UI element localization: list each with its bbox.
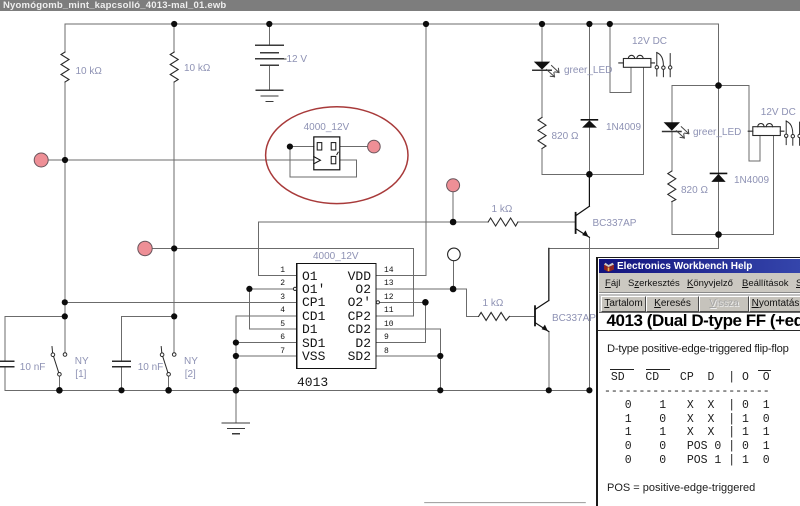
capacitor C2 10nF <box>113 361 131 367</box>
U2 pin glyph top-right <box>331 143 336 150</box>
wire 4000 feedback loop <box>290 147 357 177</box>
wire 4000 subcircuit input <box>290 146 314 148</box>
wire B connector2 to CP2 <box>152 249 414 316</box>
capacitor C1 10nF <box>0 361 14 367</box>
wire node B to Q2 collector <box>549 235 719 301</box>
help heading <box>598 330 800 331</box>
transistor Q2 BC337AP <box>535 248 549 331</box>
stray screen line bottom <box>425 502 586 504</box>
wire cap2 leads <box>121 316 123 390</box>
help button bar <box>599 294 800 312</box>
wire 4000 output to connector <box>340 146 368 148</box>
value label R3 <box>552 131 579 142</box>
switch S2 NY[2] pushbutton <box>160 347 176 377</box>
label switch S1 <box>75 356 89 367</box>
wire cap1 leads <box>4 316 6 390</box>
ground below IC <box>222 423 249 434</box>
switch S1 NY[1] pushbutton <box>51 347 67 377</box>
value label R6 <box>483 298 504 309</box>
wire switch2 leads <box>169 316 175 390</box>
wire switch1 leads <box>59 316 65 390</box>
relay K2 contacts <box>785 121 800 145</box>
pin2 open circle <box>293 287 296 290</box>
IC U1 4013 box <box>297 264 376 369</box>
value label R1 <box>76 66 102 77</box>
node connector red 2 <box>138 241 152 255</box>
label relay K1 <box>632 36 667 47</box>
wire A O1 to Q1 base <box>259 221 576 223</box>
label relay K2 <box>761 107 796 118</box>
help footer line <box>607 482 755 494</box>
wire pin2 to pin5 link <box>249 289 296 329</box>
resistor R5 1k <box>488 218 518 226</box>
wire pin8 stub <box>376 355 440 357</box>
wire connector1 to clock input <box>48 159 314 161</box>
value label battery <box>287 54 308 65</box>
label LED D4 <box>693 127 741 138</box>
wire pin7 VSS stub <box>236 355 297 357</box>
help menu bar <box>599 273 800 293</box>
node connector open white <box>448 248 461 261</box>
U2 clock triangle <box>314 157 321 164</box>
node connector red 4 <box>368 140 381 153</box>
wire connector3 stub <box>452 192 454 223</box>
ground below battery <box>256 90 283 101</box>
wire CP1 long row <box>65 301 297 303</box>
wire pin4 CD1 to ground <box>236 316 297 391</box>
help title bar <box>599 259 800 273</box>
wire VDD riser pin14 <box>376 24 426 276</box>
value label R2 <box>184 63 210 74</box>
truth table <box>610 369 634 370</box>
transistor Q1 BC337AP <box>576 174 590 237</box>
diode D6 1N4009 <box>711 173 727 182</box>
wire pin12 to pin9 link <box>376 302 425 342</box>
wire pin6 SD1 stub <box>236 342 297 344</box>
subcircuit U2 4000_12V box <box>314 137 340 170</box>
resistor R3 820 <box>538 117 546 148</box>
EWB document title bar <box>0 0 800 11</box>
Electronics Workbench Help window <box>596 257 800 506</box>
wire pin1 riser <box>259 222 297 276</box>
pin numbers right <box>384 267 394 275</box>
wire LED2 top feed <box>672 86 719 235</box>
wire ground bottom rail <box>5 389 590 391</box>
value label C1 <box>20 362 46 373</box>
wire node rail A <box>542 67 644 174</box>
wire relay2 coil feed <box>719 86 760 161</box>
relay K1 coil <box>619 55 655 67</box>
wire relay1 coil feed <box>610 24 631 93</box>
wire diode D2 vertical <box>718 86 720 235</box>
node connector red 1 <box>34 153 48 167</box>
wire diode D1 branch <box>588 24 590 174</box>
pin numbers left <box>270 267 285 275</box>
resistor R4 820 <box>668 171 676 202</box>
diode D5 1N4009 <box>581 120 597 128</box>
label diode D6 <box>734 175 769 186</box>
label subcircuit U2 <box>304 122 350 133</box>
wire cap1 top link <box>5 315 65 317</box>
label IC U1 model <box>313 251 359 262</box>
wire Q1 emitter down <box>588 237 590 390</box>
wire ground stub G2 <box>235 390 237 423</box>
value label R5 <box>492 204 513 215</box>
battery B1 12V <box>256 45 286 65</box>
label Q1 <box>593 218 637 229</box>
IC U1 pin names right <box>329 270 371 283</box>
node connector red 3 <box>447 179 460 192</box>
wire pin10 to ground rail <box>376 329 440 390</box>
wire R2 branch vertical <box>173 24 175 353</box>
wire top right corner down <box>718 24 720 86</box>
wire LED1 branch <box>541 24 543 174</box>
label switch S2 <box>184 356 198 367</box>
resistor R6 1k <box>479 312 510 320</box>
relay K2 coil <box>748 123 784 135</box>
label Q2 <box>552 313 596 324</box>
wire battery top lead <box>268 24 270 45</box>
U2 pin glyph top-left <box>317 143 322 150</box>
wire node rail B <box>672 136 774 235</box>
wire battery to ground lead <box>268 65 270 90</box>
wire top +12V rail <box>65 23 719 25</box>
wire cap2 top link <box>122 315 175 317</box>
label diode D5 <box>606 122 641 133</box>
pin12 open circle <box>376 301 379 304</box>
wire circle connector stub <box>452 261 454 289</box>
U2 pin glyph bottom-right <box>331 156 336 163</box>
resistor R1 10k <box>61 52 69 82</box>
value label R4 <box>681 185 708 196</box>
IC U1 pin names left <box>302 270 318 283</box>
red highlight ellipse <box>266 107 408 204</box>
LED D3 green <box>533 62 559 77</box>
LED D4 green <box>663 122 689 138</box>
IC U1 name <box>297 376 328 389</box>
wire Q2 emitter down <box>548 332 550 391</box>
value label C2 <box>138 362 164 373</box>
wire R6 to Q2 base <box>509 315 535 317</box>
help body line <box>607 343 789 355</box>
label LED D3 <box>564 65 612 76</box>
relay K1 contacts <box>655 52 672 76</box>
resistor R2 10k <box>170 52 178 82</box>
wire pin13 O2 row <box>376 289 479 316</box>
wire R1 branch vertical <box>64 24 66 353</box>
